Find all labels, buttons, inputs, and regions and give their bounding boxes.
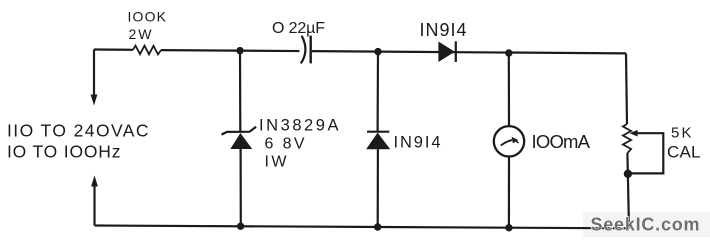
svg-text:SeekIC.com: SeekIC.com xyxy=(591,215,701,235)
svg-text:IOOK: IOOK xyxy=(128,9,167,25)
svg-text:IN9I4: IN9I4 xyxy=(394,134,441,152)
svg-text:IN9I4: IN9I4 xyxy=(420,20,467,40)
svg-text:IN3829A: IN3829A xyxy=(259,117,339,135)
svg-text:5K: 5K xyxy=(671,125,692,142)
svg-text:CAL: CAL xyxy=(667,143,701,162)
svg-text:6 8V: 6 8V xyxy=(265,136,305,153)
svg-text:IO TO IOOHz: IO TO IOOHz xyxy=(7,142,121,162)
svg-text:I W: I W xyxy=(265,154,288,171)
svg-text:2W: 2W xyxy=(129,26,153,42)
svg-text:O 22µF: O 22µF xyxy=(272,20,325,37)
svg-text:IOOmA: IOOmA xyxy=(532,131,591,152)
svg-text:IIO TO 24OVAC: IIO TO 24OVAC xyxy=(7,121,149,141)
